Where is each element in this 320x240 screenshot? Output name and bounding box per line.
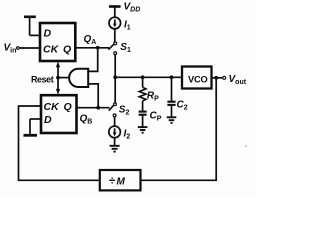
- svg-text:Vin: Vin: [4, 42, 17, 54]
- resistor RP: [139, 77, 159, 102]
- svg-text:S2: S2: [119, 105, 130, 117]
- wire feedback right vertical: [141, 78, 217, 181]
- svg-text:D: D: [44, 114, 52, 126]
- wire I1 to S1: [114, 29, 116, 42]
- ground below C2: [167, 117, 177, 123]
- junction QA tap: [96, 46, 100, 50]
- wire S1 to node: [114, 55, 116, 78]
- D flip-flop DFF-B: [41, 95, 77, 133]
- svg-text:VCO: VCO: [188, 74, 208, 84]
- wire QB output: [77, 107, 110, 109]
- wire C2 to ground: [171, 105, 173, 117]
- output terminal Vout: [223, 76, 226, 79]
- VDD supply bar: [109, 5, 121, 8]
- svg-text:CK: CK: [44, 101, 61, 113]
- junction RP branch: [141, 75, 145, 79]
- svg-text:I1: I1: [124, 20, 131, 32]
- junction S-column: [113, 75, 117, 79]
- AND gate (reset): [58, 69, 88, 87]
- D flip-flop DFF-A: [40, 23, 75, 61]
- svg-text:VDD: VDD: [124, 1, 141, 13]
- VCO box: [182, 67, 212, 89]
- current source I2: [109, 126, 130, 140]
- wire VDD to I1: [114, 7, 116, 18]
- ground below I2: [110, 146, 120, 152]
- capacitor C2: [167, 77, 187, 111]
- logic ONE bar at D of DFF-B: [24, 119, 42, 135]
- svg-text:Vout: Vout: [229, 74, 247, 86]
- wire CP to ground: [142, 115, 144, 127]
- junction C2 branch: [170, 75, 174, 79]
- Reset line with arrows: [56, 62, 60, 95]
- svg-text:D: D: [44, 27, 52, 39]
- ground below CP: [138, 127, 148, 133]
- speck: [245, 145, 247, 147]
- logic ONE bar at D of DFF-A: [24, 17, 40, 36]
- wire RP to CP: [142, 101, 144, 111]
- svg-text:S1: S1: [120, 42, 131, 54]
- svg-text:C2: C2: [177, 99, 188, 111]
- wire QA output: [75, 47, 109, 49]
- svg-text:I2: I2: [124, 129, 131, 141]
- svg-text:CP: CP: [150, 111, 162, 123]
- wire AND bottom input: [88, 84, 98, 108]
- current source I1: [109, 17, 131, 31]
- svg-text:RP: RP: [147, 91, 159, 103]
- junction QB tap: [96, 106, 100, 110]
- switch S1: [108, 42, 131, 55]
- wire S2 to I2: [114, 117, 116, 126]
- wire QA to AND top input: [88, 48, 98, 72]
- svg-text:QB: QB: [80, 114, 93, 126]
- wire Vin to CK: [19, 47, 40, 49]
- switch S2: [109, 77, 130, 117]
- svg-text:QA: QA: [84, 34, 97, 46]
- svg-text:Q: Q: [64, 101, 72, 113]
- svg-text:÷M: ÷M: [109, 176, 126, 188]
- divider box M: [100, 170, 141, 190]
- capacitor CP: [139, 112, 147, 115]
- junction feedback tap: [214, 76, 218, 80]
- node line (charge pump output): [115, 76, 182, 78]
- svg-text:Q: Q: [63, 44, 71, 56]
- wire VCO output: [212, 77, 223, 79]
- svg-text:Reset: Reset: [31, 74, 54, 84]
- wire I2 to ground: [114, 138, 116, 146]
- svg-text:CK: CK: [43, 44, 60, 56]
- wire divider to CK of DFF-B: [19, 106, 100, 180]
